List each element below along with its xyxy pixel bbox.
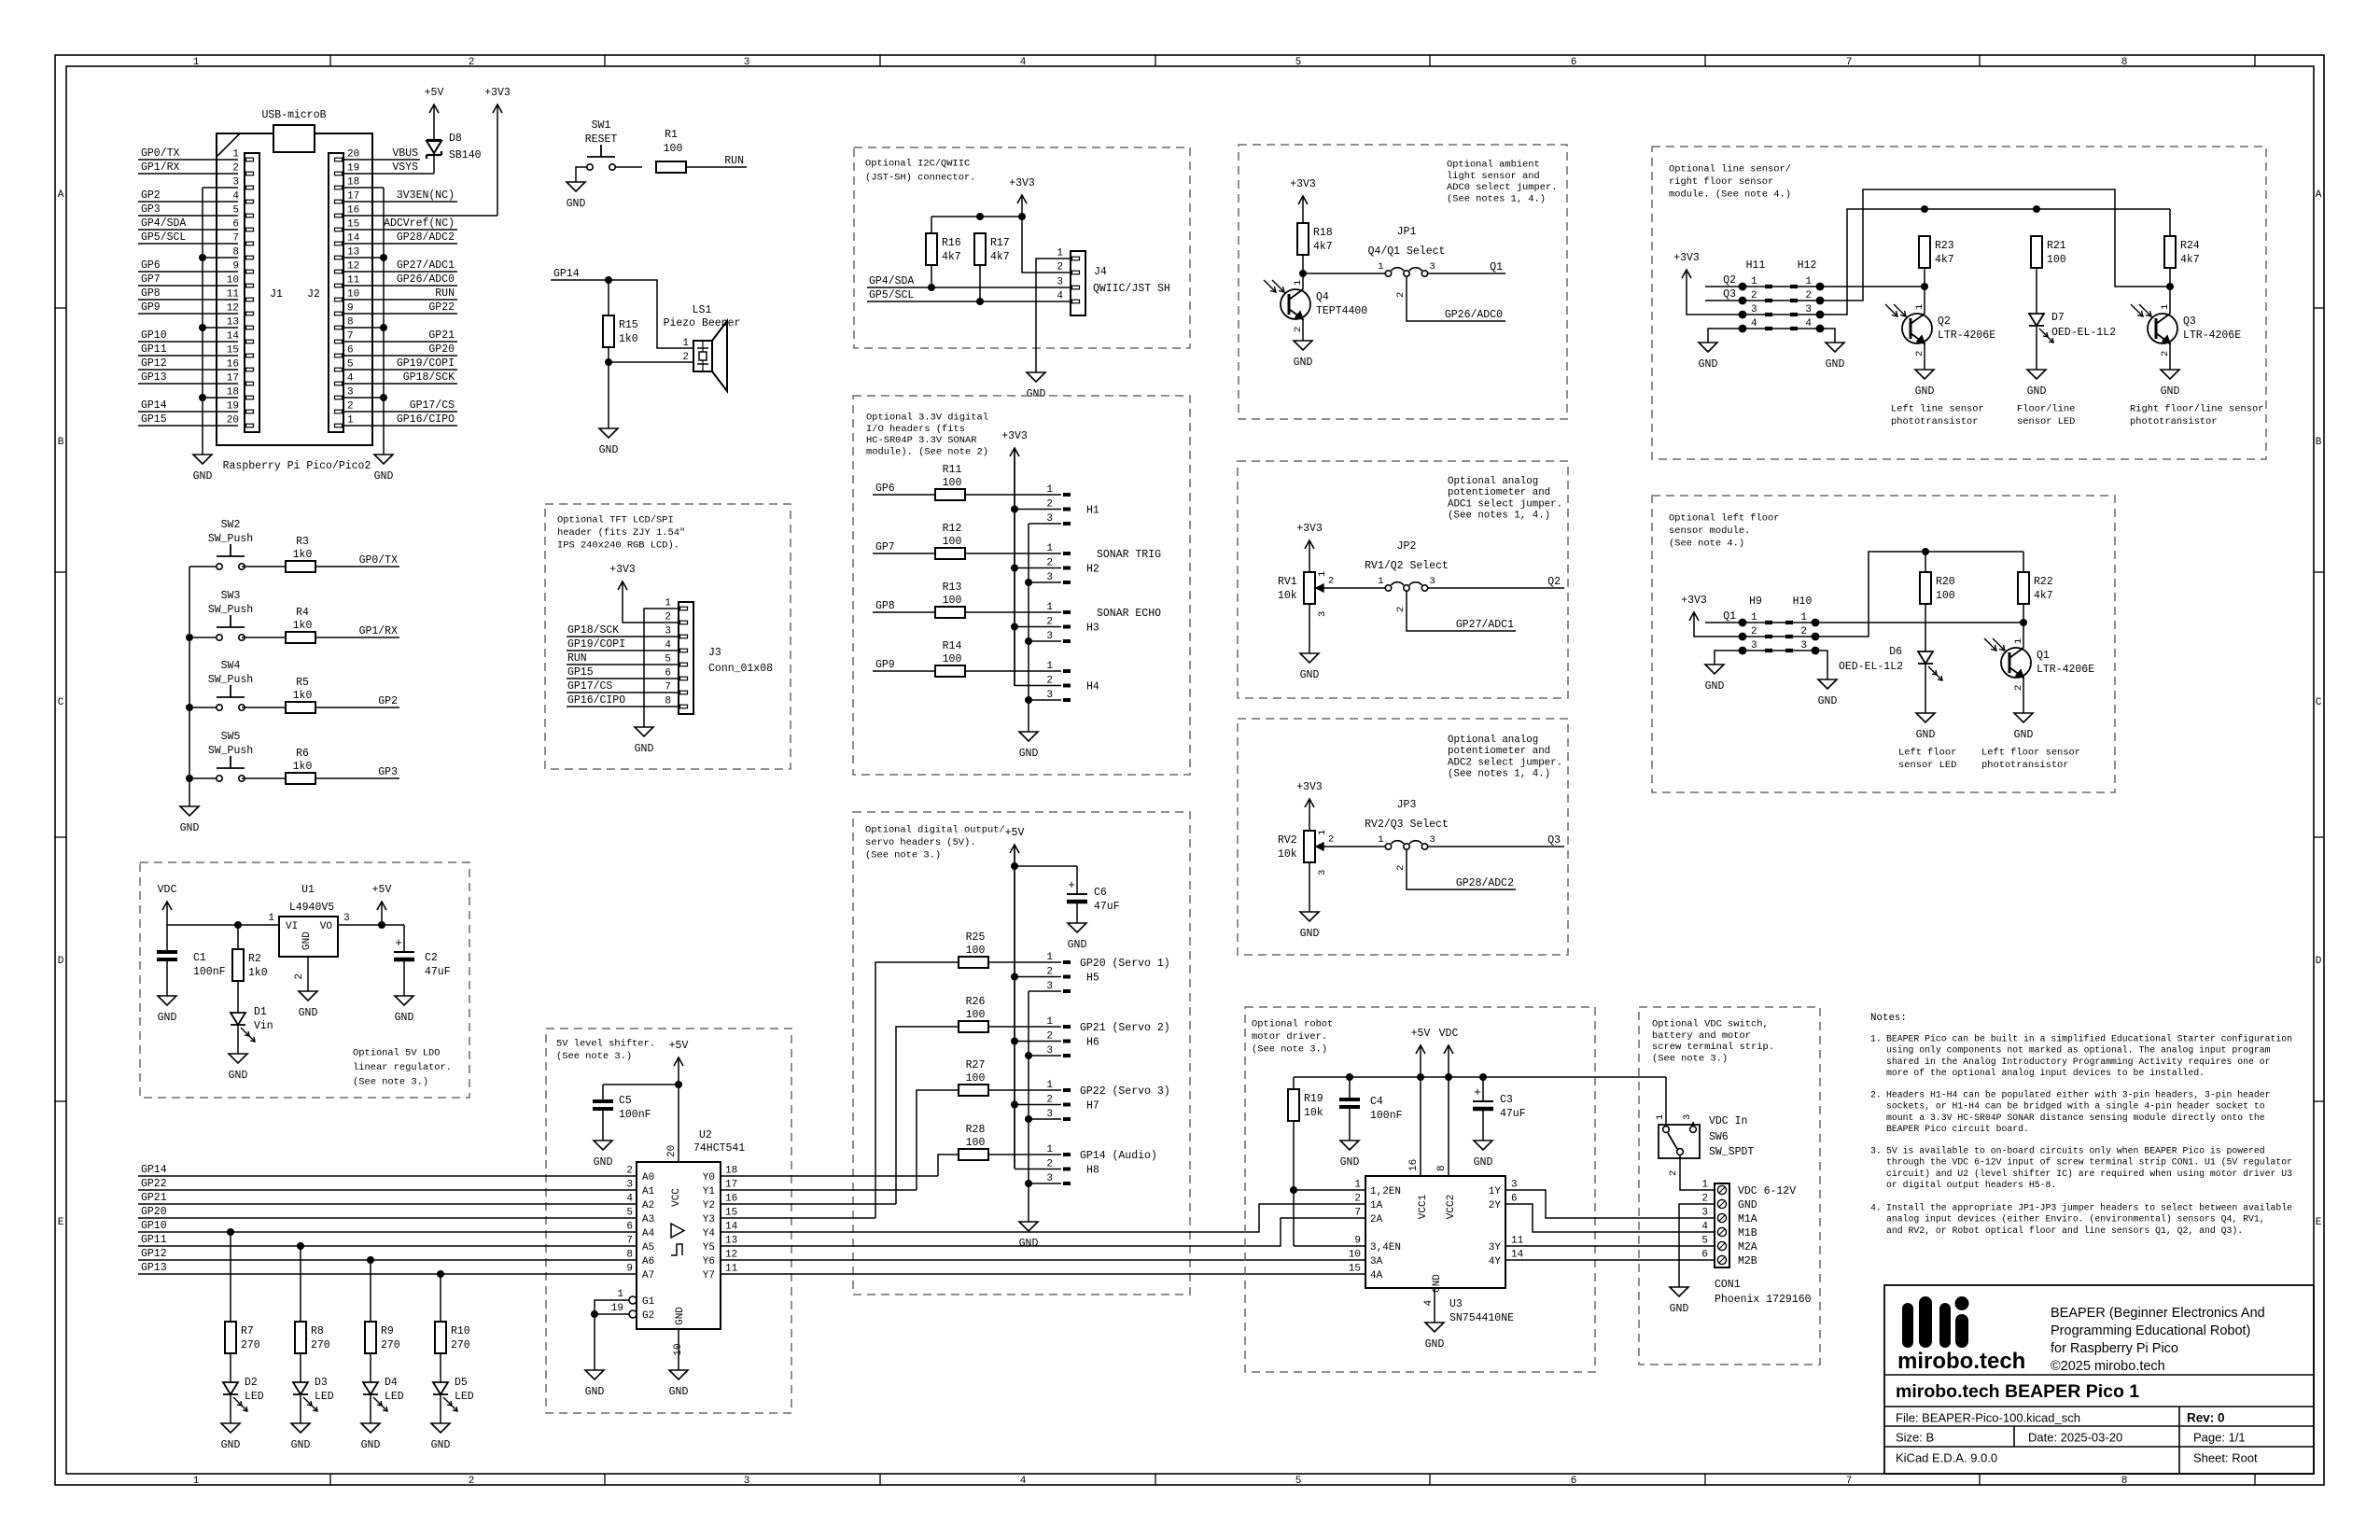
- svg-text:4: 4: [1423, 1299, 1435, 1306]
- svg-text:3: 3: [1800, 640, 1807, 651]
- svg-text:GP6: GP6: [875, 483, 895, 495]
- net label GP13 (U2 A7): [138, 1262, 637, 1274]
- notes text: [1870, 1013, 2292, 1236]
- svg-text:8: 8: [626, 1250, 633, 1261]
- svg-text:using only components not mark: using only components not marked as opti…: [1886, 1045, 2271, 1056]
- capacitor C2: [394, 936, 451, 978]
- svg-text:2: 2: [1395, 292, 1407, 298]
- svg-text:VDC: VDC: [1439, 1028, 1459, 1040]
- junction: [1025, 579, 1032, 586]
- wire: [603, 1084, 679, 1085]
- svg-text:circuit) and U2 (level shifter: circuit) and U2 (level shifter IC) are r…: [1886, 1169, 2292, 1179]
- svg-text:20: 20: [347, 149, 359, 161]
- svg-text:OED-EL-1L2: OED-EL-1L2: [2051, 327, 2116, 339]
- svg-text:for Raspberry Pi Pico: for Raspberry Pi Pico: [2051, 1341, 2178, 1356]
- wire pin16 to +3V3: [343, 215, 497, 217]
- wire: [721, 1259, 1365, 1261]
- wire: [1294, 1245, 1365, 1247]
- wire R26 to H6 pin1: [988, 1026, 1071, 1028]
- header H4 pin numbers: [1046, 661, 1099, 701]
- svg-text:2: 2: [1701, 1194, 1708, 1205]
- svg-text:2: 2: [1046, 676, 1053, 687]
- wire: [403, 959, 405, 996]
- wire: [1014, 448, 1015, 686]
- ground: [374, 455, 394, 483]
- svg-text:+5V: +5V: [1005, 827, 1025, 839]
- net label GP18/SCK: [343, 371, 457, 384]
- svg-text:Size: B: Size: B: [1896, 1431, 1934, 1445]
- wire: [2023, 623, 2024, 648]
- wire: [1407, 591, 1516, 631]
- svg-text:GP10: GP10: [141, 329, 167, 342]
- svg-text:GP21 (Servo 2): GP21 (Servo 2): [1080, 1022, 1170, 1034]
- svg-text:GP4/SDA: GP4/SDA: [141, 217, 186, 230]
- svg-text:6: 6: [232, 219, 239, 231]
- svg-text:7: 7: [626, 1236, 633, 1247]
- svg-text:7: 7: [665, 682, 671, 693]
- wire H4 pin2: [1015, 685, 1071, 687]
- svg-text:GND: GND: [567, 198, 586, 210]
- svg-text:R24: R24: [2180, 240, 2200, 252]
- svg-text:BEAPER Pico circuit board.: BEAPER Pico circuit board.: [1886, 1124, 2029, 1134]
- wire: [1294, 1189, 1365, 1191]
- wire ground rail (servo): [1028, 991, 1029, 1222]
- svg-text:2: 2: [347, 401, 354, 413]
- svg-text:GP14: GP14: [141, 399, 167, 412]
- svg-text:8: 8: [2121, 1476, 2128, 1487]
- net label 3V3EN(NC): [343, 189, 457, 202]
- wire: [230, 1353, 231, 1382]
- svg-text:9: 9: [626, 1264, 633, 1275]
- svg-text:phototransistor: phototransistor: [1891, 416, 1979, 427]
- svg-text:Q4: Q4: [1316, 291, 1329, 303]
- wire: [370, 1353, 371, 1382]
- power +5V: [425, 87, 444, 140]
- svg-text:1k0: 1k0: [293, 690, 313, 702]
- IC U2 74HCT541: [611, 1129, 746, 1356]
- header H12: [1739, 259, 1825, 332]
- ground: [1474, 1141, 1493, 1169]
- svg-text:H7: H7: [1086, 1100, 1099, 1113]
- net label Q2 (line sensor): [1705, 274, 1743, 287]
- svg-text:Optional I2C/QWIIC: Optional I2C/QWIIC: [865, 159, 970, 170]
- svg-text:R10: R10: [451, 1325, 470, 1337]
- svg-text:3V3EN(NC): 3V3EN(NC): [397, 189, 455, 202]
- svg-text:1: 1: [2160, 304, 2171, 310]
- power +5V: [372, 884, 392, 925]
- wire H2 pin2: [1015, 567, 1071, 569]
- svg-text:VDC 6-12V: VDC 6-12V: [1738, 1185, 1796, 1197]
- ground: [585, 1370, 605, 1398]
- potentiometer RV1 10k: [1278, 571, 1334, 617]
- header H7 labels: [1046, 1080, 1169, 1120]
- svg-text:M2A: M2A: [1738, 1241, 1757, 1253]
- svg-text:R12: R12: [943, 523, 962, 535]
- ground: [221, 1423, 241, 1451]
- wire: [2169, 343, 2171, 370]
- svg-text:Optional ambient: Optional ambient: [1447, 160, 1540, 171]
- svg-text:3: 3: [232, 177, 239, 189]
- junction: [2033, 205, 2040, 213]
- svg-text:servo headers (5V).: servo headers (5V).: [865, 837, 975, 848]
- wire: [189, 777, 217, 779]
- svg-text:GP17/CS: GP17/CS: [567, 680, 612, 693]
- svg-text:7: 7: [347, 331, 354, 343]
- header H1 pin numbers: [1046, 484, 1099, 525]
- junction: [1011, 973, 1018, 981]
- svg-text:SN754410NE: SN754410NE: [1449, 1312, 1514, 1324]
- wire: [2023, 678, 2024, 713]
- section comment RV2: [1448, 735, 1562, 780]
- svg-text:D1: D1: [254, 1006, 267, 1018]
- svg-text:270: 270: [241, 1339, 260, 1351]
- svg-text:(JST-SH) connector.: (JST-SH) connector.: [865, 173, 975, 184]
- connector J3 Conn_01x08: [665, 598, 773, 715]
- ground: [158, 996, 177, 1024]
- svg-text:SW1: SW1: [592, 119, 611, 132]
- wire: [1505, 1259, 1715, 1261]
- net label Q3 (line sensor): [1705, 288, 1743, 301]
- svg-text:R7: R7: [241, 1325, 254, 1337]
- wire: [1925, 552, 1926, 572]
- resistor R2: [232, 949, 268, 981]
- wire: [1815, 651, 1827, 679]
- wire: [307, 957, 309, 991]
- LED D5: [433, 1377, 474, 1411]
- junction: [1018, 213, 1026, 220]
- phototransistor Q2 LTR-4206E: [1885, 304, 1995, 357]
- power +3V3: [484, 87, 511, 216]
- switch SW1 RESET: [585, 119, 618, 170]
- svg-text:GP15: GP15: [141, 413, 167, 426]
- wire: [237, 1026, 239, 1054]
- svg-text:3: 3: [1317, 870, 1328, 875]
- wire: [300, 1246, 301, 1322]
- wire R12 to H2 pin1: [965, 553, 1071, 554]
- svg-text:5: 5: [232, 205, 239, 217]
- caption floor/line LED: [2017, 404, 2075, 428]
- net label GP5/SCL (J1 pin 7): [138, 231, 238, 244]
- ground: [180, 806, 200, 834]
- wire: [979, 265, 981, 301]
- svg-text:Right floor/line sensor: Right floor/line sensor: [2130, 404, 2263, 415]
- svg-text:2: 2: [1354, 1194, 1361, 1205]
- svg-text:2A: 2A: [1370, 1214, 1383, 1225]
- wire: [1925, 665, 1926, 713]
- svg-text:4k7: 4k7: [942, 251, 961, 263]
- wire: [189, 707, 217, 708]
- svg-text:3A: 3A: [1370, 1256, 1383, 1267]
- wire: [242, 777, 286, 779]
- svg-text:GP9: GP9: [875, 659, 895, 671]
- resistor R11: [935, 464, 965, 500]
- svg-text:LED: LED: [315, 1391, 334, 1403]
- svg-text:1: 1: [1046, 1144, 1053, 1155]
- phototransistor Q1 LTR-4206E: [1984, 638, 2094, 691]
- svg-text:(See note 4.): (See note 4.): [1669, 539, 1744, 550]
- svg-text:+3V3: +3V3: [484, 87, 511, 99]
- junction: [1417, 1073, 1424, 1081]
- svg-text:1: 1: [1805, 276, 1812, 287]
- wire: [1820, 329, 1835, 343]
- wire: [576, 167, 587, 182]
- svg-text:GP20: GP20: [141, 1206, 167, 1218]
- wire H7 pin3: [1029, 1118, 1071, 1120]
- speaker LS1 Piezo Beeper: [664, 304, 741, 391]
- svg-text:100nF: 100nF: [1370, 1110, 1403, 1122]
- wire J1 GND pin: [203, 187, 238, 189]
- svg-text:LED: LED: [245, 1391, 264, 1403]
- resistor R16: [926, 233, 961, 265]
- svg-text:2: 2: [1328, 576, 1334, 587]
- svg-text:2: 2: [665, 612, 671, 623]
- svg-text:4: 4: [1805, 318, 1812, 329]
- svg-text:C: C: [2316, 697, 2322, 708]
- net label GP7 (J1 pin 10): [138, 273, 238, 286]
- svg-text:H6: H6: [1086, 1037, 1099, 1049]
- svg-text:LTR-4206E: LTR-4206E: [2037, 664, 2094, 676]
- svg-text:GND: GND: [1818, 695, 1838, 707]
- wire: [189, 566, 217, 567]
- svg-text:GP20 (Servo 1): GP20 (Servo 1): [1080, 958, 1170, 970]
- net label VBUS (J2 pin 20): [343, 147, 420, 160]
- svg-text:Piezo Beeper: Piezo Beeper: [664, 317, 741, 329]
- svg-text:20: 20: [666, 1145, 678, 1157]
- svg-text:Optional analog: Optional analog: [1448, 735, 1538, 746]
- svg-text:47uF: 47uF: [425, 966, 451, 978]
- svg-text:4Y: 4Y: [1489, 1256, 1502, 1267]
- diode D8 SB140: [427, 133, 482, 161]
- svg-text:10: 10: [227, 275, 239, 287]
- net label GP15 (J3 pin 6): [567, 666, 679, 679]
- svg-text:+3V3: +3V3: [1681, 595, 1707, 607]
- svg-text:1: 1: [347, 415, 354, 427]
- svg-text:5: 5: [1701, 1236, 1708, 1247]
- svg-text:47uF: 47uF: [1094, 901, 1120, 913]
- resistor R22: [2018, 572, 2053, 604]
- svg-text:VCC: VCC: [671, 1188, 682, 1207]
- svg-text:1: 1: [1046, 952, 1053, 963]
- svg-text:1k0: 1k0: [293, 761, 313, 773]
- ground: [2014, 713, 2034, 741]
- svg-text:100: 100: [1936, 590, 1955, 602]
- svg-text:100: 100: [943, 653, 962, 665]
- ground: [299, 991, 318, 1019]
- resistor R26: [959, 996, 988, 1032]
- svg-text:2: 2: [1800, 626, 1807, 637]
- svg-text:phototransistor: phototransistor: [2130, 416, 2218, 427]
- svg-text:SW_Push: SW_Push: [208, 745, 253, 757]
- svg-text:GP5/SCL: GP5/SCL: [141, 231, 186, 244]
- svg-text:SW5: SW5: [221, 731, 241, 743]
- net label GP8 (J1 pin 11): [138, 287, 238, 300]
- junction: [1346, 1073, 1353, 1081]
- ground: [1705, 665, 1725, 693]
- title block frame: [1884, 1285, 2314, 1474]
- svg-text:Optional line sensor/: Optional line sensor/: [1669, 164, 1791, 175]
- svg-text:Q3: Q3: [1723, 288, 1736, 301]
- svg-text:SW_Push: SW_Push: [208, 604, 253, 616]
- svg-text:1: 1: [1317, 830, 1328, 835]
- wire: [1294, 1076, 1666, 1078]
- power +5V: [669, 1040, 689, 1085]
- power +3V3: [1009, 177, 1035, 217]
- resistor R4: [286, 607, 315, 643]
- wire: [721, 1203, 896, 1205]
- svg-text:+3V3: +3V3: [1296, 781, 1323, 793]
- svg-text:VBUS: VBUS: [392, 147, 418, 160]
- phototransistor Q4 TEPT4400: [1264, 280, 1367, 332]
- svg-text:CON1: CON1: [1715, 1279, 1741, 1291]
- svg-text:1: 1: [682, 338, 689, 349]
- wire: [1680, 1155, 1715, 1190]
- svg-text:4A: 4A: [1370, 1270, 1383, 1281]
- net label GP9 (J1 pin 12): [138, 301, 238, 314]
- svg-text:100: 100: [2047, 254, 2066, 266]
- svg-text:3: 3: [1046, 981, 1053, 992]
- svg-text:R18: R18: [1313, 227, 1333, 239]
- svg-text:5: 5: [626, 1208, 633, 1219]
- svg-text:5V is available to on-board ci: 5V is available to on-board circuits onl…: [1886, 1145, 2265, 1155]
- svg-text:GND: GND: [221, 1439, 241, 1451]
- svg-text:270: 270: [451, 1339, 470, 1351]
- resistor R17: [974, 233, 1010, 265]
- svg-text:GP21: GP21: [428, 329, 455, 342]
- wire: [1924, 343, 1925, 370]
- wire J1 GND pin: [203, 327, 238, 329]
- junction: [1011, 623, 1018, 631]
- svg-text:2: 2: [1046, 558, 1053, 569]
- svg-text:18: 18: [227, 387, 239, 399]
- svg-text:1,2EN: 1,2EN: [1370, 1186, 1401, 1197]
- svg-text:GP0/TX: GP0/TX: [359, 554, 399, 567]
- svg-text:16: 16: [1408, 1159, 1420, 1171]
- svg-text:+: +: [1068, 878, 1075, 892]
- svg-text:R27: R27: [966, 1059, 986, 1071]
- junction: [186, 634, 193, 641]
- svg-text:GP20: GP20: [428, 343, 455, 356]
- svg-text:+3V3: +3V3: [1001, 430, 1028, 442]
- svg-text:1: 1: [1046, 543, 1053, 554]
- svg-text:GP2: GP2: [378, 695, 398, 707]
- wire: [595, 1313, 629, 1315]
- jumper JP2 RV1/Q2 Select: [1365, 540, 1449, 612]
- svg-text:16: 16: [725, 1194, 737, 1205]
- svg-text:U2: U2: [699, 1129, 712, 1141]
- svg-text:14: 14: [725, 1222, 738, 1233]
- svg-text:GND: GND: [291, 1439, 311, 1451]
- capacitor C3: [1473, 1085, 1526, 1120]
- junction: [1025, 1052, 1032, 1059]
- svg-text:2: 2: [1046, 1159, 1053, 1170]
- svg-text:(See notes 1, 4.): (See notes 1, 4.): [1448, 769, 1550, 780]
- resistor R20: [1920, 572, 1955, 604]
- svg-text:R9: R9: [381, 1325, 394, 1337]
- svg-text:19: 19: [227, 401, 239, 413]
- ground: [1300, 912, 1320, 940]
- power +5V: [1411, 1028, 1431, 1077]
- wire: [608, 362, 609, 428]
- svg-text:GP1/RX: GP1/RX: [141, 161, 180, 174]
- net label RUN (J3 pin 5): [567, 652, 679, 665]
- net label GP26/ADC0: [1445, 309, 1503, 321]
- wire: [1815, 552, 2023, 637]
- power +3V3: [1296, 523, 1323, 572]
- wire: [440, 1274, 441, 1322]
- wire: [1325, 587, 1385, 589]
- svg-text:RUN: RUN: [567, 652, 587, 665]
- junction: [437, 1270, 444, 1278]
- svg-text:J3: J3: [708, 647, 721, 659]
- wire: [189, 567, 190, 806]
- svg-text:H9: H9: [1749, 595, 1762, 608]
- svg-text:12: 12: [347, 261, 359, 273]
- svg-text:14: 14: [347, 233, 360, 245]
- svg-text:VDC: VDC: [158, 884, 177, 896]
- ground: [1068, 923, 1087, 951]
- svg-text:2: 2: [1805, 290, 1812, 301]
- svg-text:11: 11: [227, 289, 240, 301]
- svg-text:1: 1: [193, 1476, 200, 1487]
- ground: [567, 182, 586, 210]
- svg-text:RV2: RV2: [1278, 834, 1297, 847]
- net label ADCVref(NC): [343, 217, 457, 230]
- wire: [1309, 604, 1310, 653]
- wire: [2169, 268, 2171, 287]
- svg-text:Install the appropriate JP1-JP: Install the appropriate JP1-JP3 jumper h…: [1886, 1202, 2292, 1212]
- svg-text:GND: GND: [669, 1386, 689, 1398]
- connector J1 (Pico left header): [227, 149, 283, 433]
- junction: [1921, 283, 1928, 290]
- net label GP14 (U2 A0): [138, 1164, 637, 1176]
- wire: [609, 280, 693, 348]
- caption left floor phototransistor: [1981, 748, 2080, 772]
- junction: [297, 1242, 304, 1250]
- svg-text:14: 14: [1511, 1250, 1524, 1261]
- wire R11 to H1 pin1: [965, 494, 1071, 496]
- capacitor C4: [1339, 1096, 1403, 1122]
- svg-text:A0: A0: [642, 1172, 654, 1183]
- svg-text:R5: R5: [296, 677, 309, 689]
- wire: [1448, 1077, 1449, 1176]
- junction: [1922, 548, 1929, 555]
- wire H3 pin2: [1015, 626, 1071, 628]
- resistor R6: [286, 748, 315, 784]
- wire: [1407, 276, 1505, 321]
- svg-text:270: 270: [381, 1339, 400, 1351]
- title block file row: [1896, 1411, 2225, 1425]
- svg-text:1: 1: [1354, 1180, 1361, 1191]
- optional digital output/servo header section box: [853, 812, 1190, 1295]
- svg-text:mirobo.tech BEAPER Pico 1: mirobo.tech BEAPER Pico 1: [1896, 1381, 2139, 1402]
- net label GP1/RX (J1 pin 2): [138, 161, 238, 174]
- svg-text:A7: A7: [642, 1270, 654, 1281]
- junction: [976, 213, 984, 220]
- svg-text:4.: 4.: [1870, 1202, 1882, 1212]
- junction: [186, 775, 193, 782]
- svg-text:3.: 3.: [1870, 1145, 1882, 1155]
- net label GP16/CIPO: [343, 413, 457, 426]
- net label GP21: [343, 329, 457, 342]
- svg-text:C: C: [58, 697, 64, 708]
- svg-text:GP12: GP12: [141, 357, 167, 370]
- svg-text:1: 1: [232, 149, 239, 161]
- svg-text:GP6: GP6: [141, 259, 161, 272]
- svg-text:or digital output headers H5-8: or digital output headers H5-8.: [1886, 1180, 2056, 1190]
- svg-text:Optional left floor: Optional left floor: [1669, 513, 1779, 525]
- power +3V3: [1673, 252, 1700, 278]
- headers H9 H10: [1739, 595, 1820, 654]
